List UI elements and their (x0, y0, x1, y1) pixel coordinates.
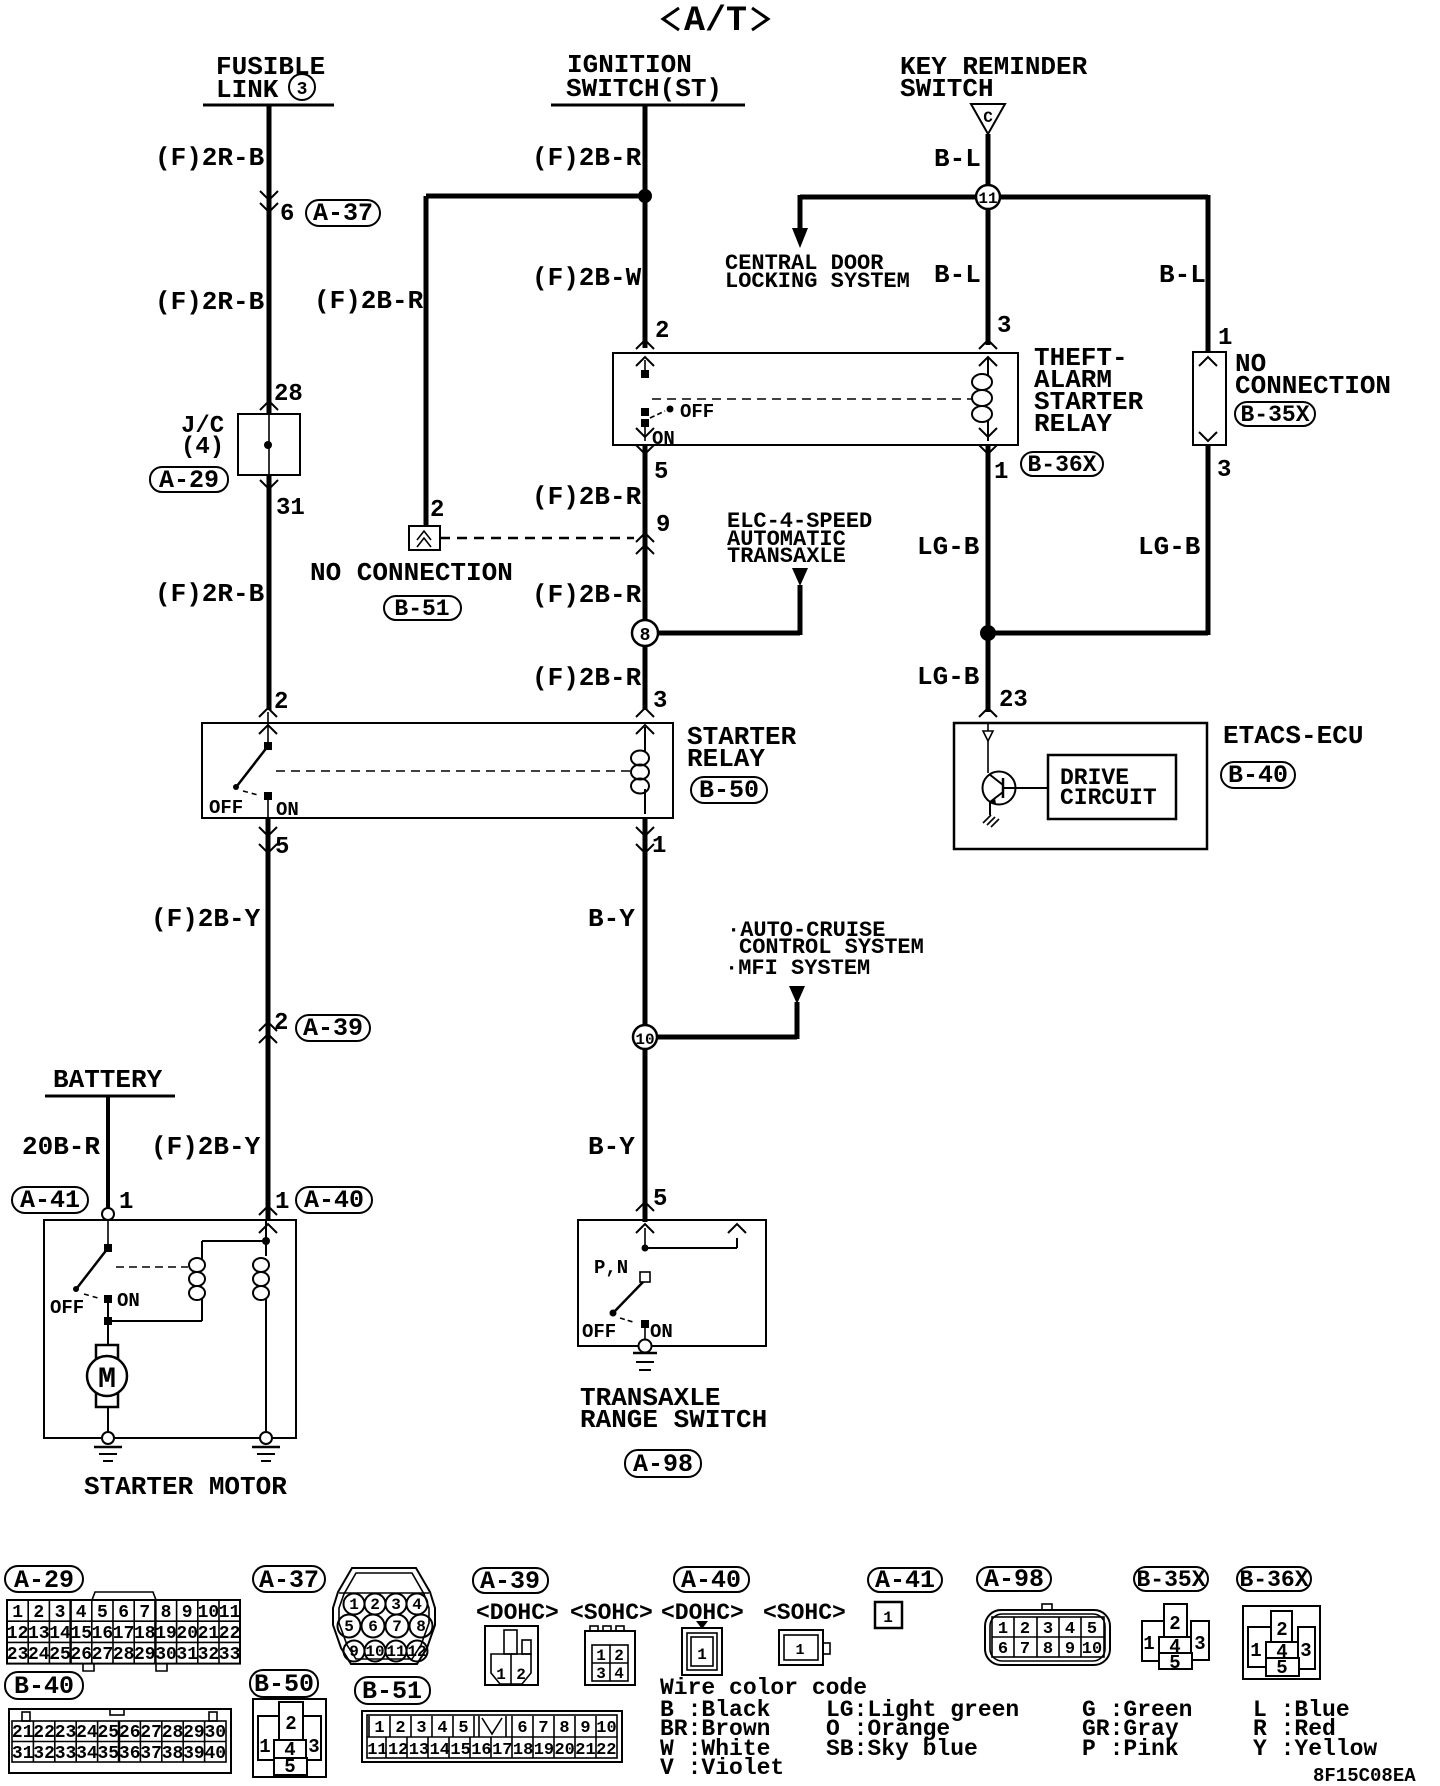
no connection B-35X box (1193, 352, 1226, 445)
connector label A-40 (296, 1186, 372, 1215)
wire junction 10 to transaxle range switch (643, 1049, 648, 1222)
svg-text:1: 1 (119, 1189, 133, 1216)
svg-text:(F)2B-R: (F)2B-R (532, 482, 642, 512)
no connection label right (1235, 349, 1391, 401)
connector label A-98 (625, 1450, 701, 1479)
starter motor box (44, 1220, 296, 1438)
ground transaxle (633, 1353, 657, 1370)
connector B-36X pinout (1243, 1606, 1320, 1679)
svg-text:A-29: A-29 (14, 1566, 74, 1595)
svg-text:(F)2B-Y: (F)2B-Y (151, 904, 261, 934)
svg-text:A-98: A-98 (984, 1565, 1044, 1594)
A-41 terminal circle (102, 1208, 114, 1220)
pin 2 entry chevrons (636, 340, 654, 366)
connector A-98 pinout (985, 1604, 1110, 1665)
svg-text:M: M (98, 1363, 116, 1397)
svg-text:3: 3 (297, 80, 308, 100)
svg-text:<DOHC>: <DOHC> (476, 1600, 559, 1626)
svg-text:10: 10 (635, 1031, 654, 1049)
svg-text:8F15C08EA: 8F15C08EA (1313, 1765, 1416, 1786)
svg-text:28: 28 (274, 381, 303, 408)
pin 23 entry chevron (979, 708, 997, 717)
svg-text:LG-B: LG-B (1138, 532, 1201, 562)
svg-text:LG-B: LG-B (917, 532, 980, 562)
fusible link 3 label (203, 52, 334, 105)
svg-text:5: 5 (653, 1186, 667, 1213)
wire B-35X down to LG-B junction (986, 445, 1208, 635)
starter motor ground terminals (102, 1432, 114, 1444)
ignition switch label (551, 50, 745, 105)
connector A-39 SOHC pinout (585, 1626, 635, 1685)
wire ignition switch down (643, 105, 648, 348)
wire junction 8 to starter relay pin 3 (643, 646, 648, 710)
connector B-50 pinout (253, 1699, 326, 1778)
svg-text:B-36X: B-36X (1027, 452, 1096, 478)
pull-in coil branch wire (108, 1320, 202, 1322)
connector label B-40 bottom (5, 1672, 83, 1701)
svg-text:RANGE SWITCH: RANGE SWITCH (580, 1405, 767, 1435)
theft relay switch (641, 360, 714, 450)
connector A-40 pin 1 chevrons (259, 1206, 277, 1233)
theft relay dashed line (652, 398, 973, 400)
svg-text:B-Y: B-Y (588, 904, 635, 934)
connector B-35X pinout (1142, 1604, 1209, 1674)
wire starter relay to junction 10 (643, 818, 648, 1025)
svg-text:1: 1 (652, 833, 666, 860)
svg-text:6: 6 (280, 201, 294, 228)
svg-text:LINK: LINK (216, 75, 279, 105)
connector A-41 pinout (875, 1602, 902, 1628)
drive circuit box (1048, 755, 1176, 819)
svg-text:1: 1 (1218, 325, 1232, 352)
key reminder switch label (900, 52, 1088, 104)
ETACS-ECU box (954, 723, 1207, 849)
svg-text:<SOHC>: <SOHC> (763, 1600, 846, 1626)
svg-text:TRANSAXLE: TRANSAXLE (727, 544, 846, 569)
svg-text:(F)2B-R: (F)2B-R (532, 663, 642, 693)
svg-text:B-51: B-51 (362, 1677, 422, 1706)
svg-text:OFF: OFF (50, 1297, 84, 1319)
connector A-37 pin 6 chevrons (260, 191, 278, 212)
central door locking label (725, 251, 910, 294)
svg-text:(4): (4) (181, 434, 224, 461)
svg-text:(F)2R-B: (F)2R-B (155, 143, 265, 173)
MFI arrow (789, 986, 805, 1004)
connector A-40 SOHC pinout (779, 1630, 830, 1665)
svg-text:<SOHC>: <SOHC> (570, 1600, 653, 1626)
pin 28 chevron (260, 401, 278, 410)
svg-text:1: 1 (275, 1189, 289, 1216)
central door arrow (792, 228, 808, 248)
wire junction 8 to ELC arrow (658, 585, 800, 635)
svg-text:A/T: A/T (684, 1, 747, 41)
svg-text:1: 1 (994, 459, 1008, 486)
connector label A-37 bottom (253, 1566, 325, 1595)
wire theft relay pin 1 to LG-B junction (986, 445, 991, 633)
wire theft relay to junction 8 (643, 445, 648, 620)
junction dot LG-B (980, 625, 996, 641)
ELC arrow (792, 568, 808, 586)
connector label A-40 bottom (674, 1566, 749, 1595)
svg-text:B-L: B-L (934, 144, 981, 174)
connector A-39 DOHC pinout (485, 1626, 538, 1685)
wire junction 10 to MFI arrow (657, 1002, 797, 1039)
svg-text:A-40: A-40 (304, 1186, 364, 1215)
junction dot ignition branch (638, 189, 652, 203)
svg-text:A-40: A-40 (681, 1566, 741, 1595)
svg-text:2324252627282930313233: 2324252627282930313233 (7, 1645, 241, 1665)
connector label A-39 (296, 1014, 370, 1043)
svg-text:BATTERY: BATTERY (53, 1065, 163, 1095)
wire key reminder to junction 11 (986, 134, 991, 185)
svg-text:STARTER MOTOR: STARTER MOTOR (84, 1472, 287, 1502)
theft-alarm starter relay box (613, 353, 1018, 445)
pin 5 exit chevrons (259, 827, 277, 853)
wire branch horizontal (426, 194, 645, 199)
connector A-40 DOHC pinout (682, 1621, 722, 1675)
svg-text:A-37: A-37 (313, 199, 373, 228)
svg-text:NO CONNECTION: NO CONNECTION (310, 558, 513, 588)
svg-text:B-L: B-L (934, 260, 981, 290)
svg-text:111213141516171819202122: 111213141516171819202122 (367, 1741, 616, 1760)
battery label (45, 1065, 175, 1096)
wire starter relay to starter motor (266, 818, 271, 1220)
motor M (87, 1345, 127, 1432)
svg-text:RELAY: RELAY (687, 744, 765, 774)
transaxle switch internals (582, 1224, 746, 1343)
pin 9 chevrons (636, 533, 654, 554)
svg-text:B-40: B-40 (14, 1672, 74, 1701)
connector A-39 pin 2 chevrons (259, 1022, 277, 1043)
svg-text:1: 1 (795, 1642, 804, 1659)
wire branch down to B-51 (424, 196, 429, 526)
svg-text:ON: ON (276, 799, 299, 821)
ground right (252, 1447, 280, 1461)
svg-text:3: 3 (1217, 457, 1231, 484)
svg-text:B-Y: B-Y (588, 1132, 635, 1162)
svg-text:P,N: P,N (594, 1257, 628, 1279)
connector B-40 pinout (9, 1709, 231, 1773)
svg-text:ON: ON (652, 428, 675, 450)
pin 5 exit chevrons theft relay (636, 428, 654, 454)
svg-text:B-L: B-L (1159, 260, 1206, 290)
connector label B-40 (1221, 761, 1295, 790)
svg-text:SWITCH: SWITCH (900, 74, 994, 104)
svg-text:(F)2R-B: (F)2R-B (155, 579, 265, 609)
connector label B-50 (691, 776, 767, 805)
transaxle ground terminal (639, 1340, 652, 1353)
svg-text:3: 3 (997, 313, 1011, 340)
svg-text:LOCKING SYSTEM: LOCKING SYSTEM (725, 269, 910, 294)
starter relay switch (233, 712, 272, 818)
wire junction 11 right to B-35X (1000, 195, 1208, 352)
svg-text:(F)2R-B: (F)2R-B (155, 287, 265, 317)
svg-text:CONNECTION: CONNECTION (1235, 371, 1391, 401)
connector A-37 pinout (333, 1568, 435, 1664)
svg-text:(F)2B-R: (F)2B-R (314, 286, 424, 316)
svg-text:2: 2 (655, 318, 669, 345)
connector label B-35X bottom (1134, 1567, 1208, 1593)
svg-text:A-98: A-98 (633, 1450, 693, 1479)
auto-cruise MFI label (725, 918, 924, 981)
pin 1 exit chevrons theft relay (979, 428, 997, 454)
connector label B-35X (1235, 402, 1315, 428)
svg-text:SWITCH(ST): SWITCH(ST) (566, 74, 722, 104)
ground left (94, 1447, 122, 1461)
connector label B-36X (1021, 452, 1103, 478)
wire fusible link to J/C (267, 105, 272, 414)
svg-text:A-41: A-41 (875, 1566, 935, 1595)
svg-text:9: 9 (656, 512, 670, 539)
svg-text:Y :Yellow: Y :Yellow (1253, 1736, 1377, 1762)
theft relay name (1034, 343, 1144, 439)
svg-text:C: C (983, 109, 993, 127)
battery wire (106, 1096, 110, 1211)
svg-text:1: 1 (883, 1609, 893, 1627)
theft relay coil (972, 357, 992, 441)
hold-in coil (253, 1258, 269, 1432)
pin 3 entry chevrons (979, 340, 997, 366)
wire junction 11 down to theft relay pin 3 (986, 209, 991, 345)
svg-text:A-39: A-39 (303, 1014, 363, 1043)
svg-text:5: 5 (654, 459, 668, 486)
svg-text:B-35X: B-35X (1240, 402, 1309, 428)
svg-text:B-50: B-50 (699, 776, 759, 805)
pin 5 entry chevrons (636, 1202, 654, 1233)
svg-text:A-41: A-41 (20, 1186, 80, 1215)
wire color code legend (660, 1675, 1377, 1781)
svg-text:OFF: OFF (209, 797, 243, 819)
hold-in coil wire from pin 1 (265, 1220, 267, 1256)
svg-text:OFF: OFF (680, 401, 714, 423)
connector A-29 pinout (7, 1592, 241, 1671)
connector label B-50 bottom (250, 1670, 318, 1699)
connector label A-29 bottom (5, 1566, 83, 1595)
connector label B-36X bottom (1237, 1567, 1311, 1593)
connector label A-41 bottom (868, 1566, 942, 1595)
svg-text:B-40: B-40 (1228, 761, 1288, 790)
svg-text:ON: ON (117, 1290, 140, 1312)
pin 1 exit chevrons starter relay (636, 827, 654, 853)
starter motor dashed line (116, 1266, 188, 1268)
switch to motor wire (104, 1299, 112, 1345)
connector label B-51 bottom (355, 1677, 430, 1706)
starter relay coil (631, 727, 649, 814)
svg-text:2: 2 (274, 1010, 288, 1037)
pin 2 entry chevrons (259, 708, 277, 734)
junction circle 10 (633, 1025, 657, 1049)
starter relay dashed line (276, 770, 630, 772)
title A/T (663, 1, 768, 41)
junction dot (262, 1237, 270, 1245)
svg-text:31: 31 (276, 495, 305, 522)
svg-text:V :Violet: V :Violet (660, 1755, 784, 1781)
junction block J/C (4) (181, 413, 300, 475)
wire transistor to drive circuit (1003, 787, 1048, 789)
transaxle range switch name (580, 1383, 767, 1435)
connector label A-29 (150, 466, 228, 495)
svg-text:1: 1 (697, 1646, 707, 1664)
svg-text:B-51: B-51 (394, 596, 449, 622)
junction circle 8 (632, 620, 658, 646)
svg-text:A-39: A-39 (480, 1567, 540, 1596)
svg-text:23: 23 (999, 687, 1028, 714)
svg-text:P :Pink: P :Pink (1082, 1736, 1179, 1762)
svg-text:A-37: A-37 (259, 1566, 319, 1595)
svg-text:B-36X: B-36X (1239, 1567, 1308, 1593)
connector B-51 pinout (362, 1711, 622, 1762)
svg-text:OFF: OFF (582, 1321, 616, 1343)
svg-text:B-50: B-50 (254, 1670, 314, 1699)
no connection B-51 inline connector (409, 497, 444, 550)
connector label A-98 bottom (977, 1565, 1051, 1594)
svg-text:ETACS-ECU: ETACS-ECU (1223, 721, 1363, 751)
transistor ground hatch (983, 815, 999, 827)
svg-text:A-29: A-29 (159, 466, 219, 495)
dashed wire B-51 to pin 9 (440, 537, 634, 540)
svg-text:SB:Sky blue: SB:Sky blue (826, 1736, 978, 1762)
svg-text:(F)2B-R: (F)2B-R (532, 143, 642, 173)
svg-text:(F)2B-R: (F)2B-R (532, 580, 642, 610)
svg-text:2: 2 (274, 689, 288, 716)
svg-text:·MFI SYSTEM: ·MFI SYSTEM (725, 956, 870, 981)
svg-text:(F)2B-W: (F)2B-W (532, 263, 642, 293)
svg-text:31323334353637383940: 31323334353637383940 (12, 1744, 226, 1764)
svg-text:(F)2B-Y: (F)2B-Y (151, 1132, 261, 1162)
svg-text:2: 2 (430, 497, 444, 524)
key reminder switch triangle C (971, 104, 1005, 134)
transistor Q1 (983, 772, 1016, 816)
connector label B-51 (384, 596, 461, 622)
svg-text:RELAY: RELAY (1034, 409, 1112, 439)
pin 3 entry chevrons starter relay (636, 708, 654, 734)
svg-text:B-35X: B-35X (1136, 1567, 1205, 1593)
svg-text:3: 3 (653, 688, 667, 715)
svg-text:11: 11 (978, 190, 997, 208)
coil junction wire (202, 1240, 266, 1242)
connector label A-39 bottom (473, 1567, 548, 1596)
connector label A-37 (306, 199, 380, 228)
svg-text:1213141516171819202122: 1213141516171819202122 (7, 1624, 241, 1644)
starter motor switch (50, 1220, 140, 1319)
pin 31 chevron (260, 480, 278, 489)
svg-text:LG-B: LG-B (917, 662, 980, 692)
ELC-4-speed label (727, 509, 872, 569)
wire junction 11 left to central door arrow (800, 195, 976, 230)
wire J/C to starter relay (267, 475, 272, 710)
svg-text:20B-R: 20B-R (22, 1132, 100, 1162)
starter relay B-50 box (202, 723, 673, 818)
wire junction to ETACS-ECU (986, 633, 991, 712)
junction circle 11 (976, 185, 1000, 209)
svg-text:8: 8 (640, 626, 651, 646)
svg-text:5: 5 (275, 834, 289, 861)
svg-text:21222324252627282930: 21222324252627282930 (12, 1723, 226, 1743)
svg-text:CIRCUIT: CIRCUIT (1060, 785, 1157, 811)
pull-in coil (189, 1241, 205, 1300)
connector label A-41 (12, 1186, 88, 1215)
transaxle range switch box (578, 1220, 766, 1346)
ETACS internals: input triangle (983, 723, 993, 773)
svg-text:ON: ON (650, 1321, 673, 1343)
